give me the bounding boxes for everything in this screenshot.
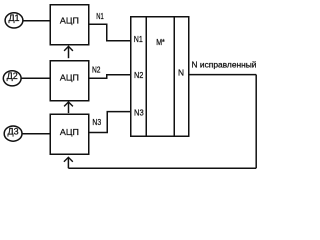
svg-text:N1: N1 bbox=[96, 11, 104, 21]
wire Д2 to АЦП2 bbox=[21, 77, 50, 79]
wire feedback right vertical bbox=[255, 75, 257, 169]
svg-text:N3: N3 bbox=[92, 117, 101, 127]
svg-text:АЦП: АЦП bbox=[60, 127, 79, 137]
svg-text:N2: N2 bbox=[134, 70, 144, 80]
svg-text:Д1: Д1 bbox=[8, 13, 19, 23]
wire Д3 to АЦП3 bbox=[22, 133, 50, 135]
feedback arrow into АЦП1 bbox=[68, 47, 70, 58]
ADC block АЦП3 bbox=[50, 114, 89, 154]
svg-text:N: N bbox=[178, 68, 184, 78]
corrector internal divider right bbox=[173, 17, 175, 137]
svg-text:N исправленный: N исправленный bbox=[192, 59, 257, 69]
svg-text:АЦП: АЦП bbox=[60, 72, 79, 82]
sensor Д1 bbox=[5, 13, 23, 28]
corrector internal divider left bbox=[145, 17, 147, 137]
feedback arrow into АЦП3 bbox=[67, 158, 69, 168]
ADC block АЦП2 bbox=[50, 61, 89, 101]
svg-text:N2: N2 bbox=[92, 65, 101, 75]
wire N1: АЦП1 output to corrector bbox=[89, 24, 131, 41]
ADC block АЦП1 bbox=[50, 5, 89, 45]
corrector block М* outer bbox=[131, 17, 189, 137]
svg-text:N1: N1 bbox=[134, 34, 143, 44]
svg-text:Д2: Д2 bbox=[7, 71, 18, 81]
sensor Д3 bbox=[4, 126, 22, 141]
svg-text:АЦП: АЦП bbox=[60, 16, 79, 26]
wire N output of corrector bbox=[189, 74, 256, 76]
wire feedback bottom horizontal bbox=[68, 167, 256, 169]
svg-text:М*: М* bbox=[156, 38, 165, 47]
svg-text:N3: N3 bbox=[134, 107, 144, 117]
feedback arrow into АЦП2 bbox=[68, 103, 70, 114]
svg-text:Д3: Д3 bbox=[8, 126, 19, 136]
wire Д1 to АЦП1 bbox=[23, 20, 50, 22]
sensor Д2 bbox=[3, 71, 21, 86]
wire N3: АЦП3 output to corrector bbox=[89, 112, 131, 133]
wire N2: АЦП2 output to corrector bbox=[89, 75, 131, 79]
